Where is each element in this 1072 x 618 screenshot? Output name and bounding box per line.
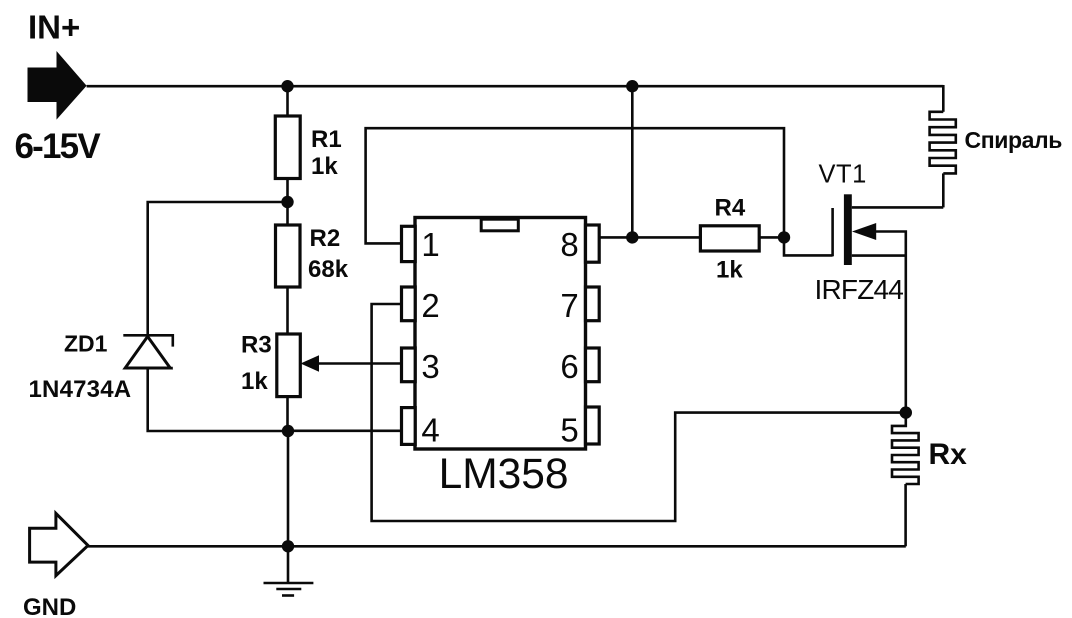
port GND arrow (30, 513, 88, 575)
transistor VT1 (833, 194, 877, 265)
pin 5 (586, 407, 600, 444)
svg-text:8: 8 (560, 226, 578, 263)
wire ground rail (88, 545, 906, 548)
svg-text:1k: 1k (716, 257, 743, 284)
svg-text:68k: 68k (308, 256, 349, 283)
wire node to pin 4 (288, 429, 402, 432)
wire body arrow to source drop (876, 232, 906, 413)
pin 7 (586, 287, 600, 321)
port IN+ arrow (28, 51, 87, 120)
zener diode ZD1 (123, 335, 173, 368)
wire R1 to node (286, 179, 289, 203)
resistor R2 (276, 225, 301, 287)
wire node to R2 (286, 202, 289, 225)
svg-text:6-15V: 6-15V (15, 127, 102, 166)
svg-text:LM358: LM358 (439, 451, 569, 498)
resistor Rx heating element (892, 413, 919, 484)
wire pin2 loop to source node (372, 304, 906, 521)
node junction ground rail (282, 540, 294, 552)
svg-text:Спираль: Спираль (965, 127, 1063, 153)
wire pin8 to R4 (599, 236, 700, 239)
svg-text:7: 7 (560, 287, 578, 324)
node junction R1/R2 (281, 196, 293, 208)
svg-text:1: 1 (421, 226, 439, 263)
svg-text:R2: R2 (310, 225, 341, 252)
svg-text:Rx: Rx (929, 438, 968, 471)
wire node to zener (148, 202, 288, 335)
resistor R1 (275, 116, 300, 179)
node junction top (281, 80, 293, 92)
wire zener to bottom node (148, 368, 288, 431)
resistor R4 (700, 226, 759, 251)
svg-text:ZD1: ZD1 (64, 331, 108, 357)
svg-text:GND: GND (23, 594, 76, 618)
node junction pin8 rail (626, 231, 638, 243)
node junction bottom divider (282, 425, 294, 437)
pin 3 (402, 348, 416, 382)
potentiometer R3 (277, 334, 319, 397)
wire pin3 to R3 wiper (319, 362, 402, 365)
pin 2 (402, 287, 416, 321)
wire vcc drop to pin8 rail (631, 86, 634, 237)
op-amp U1 LM358 body (415, 218, 586, 450)
svg-text:R4: R4 (715, 195, 746, 222)
svg-text:R3: R3 (241, 332, 272, 359)
svg-text:IRFZ44: IRFZ44 (815, 274, 904, 305)
node junction top rail / vcc drop (626, 80, 638, 92)
svg-text:1N4734A: 1N4734A (29, 376, 132, 403)
op-amp notch mark (481, 219, 518, 231)
svg-text:VT1: VT1 (819, 161, 867, 189)
wire coil to drain (942, 173, 945, 207)
pin 6 (586, 348, 600, 382)
svg-text:R1: R1 (311, 126, 342, 153)
svg-text:2: 2 (421, 287, 439, 324)
wire Rx to ground rail (904, 484, 907, 546)
wire R4 to gate node (759, 236, 784, 239)
wire source (852, 254, 906, 257)
wire to R1 (286, 86, 289, 116)
heating element Спираль (930, 112, 956, 174)
svg-text:6: 6 (560, 348, 578, 385)
svg-text:1k: 1k (241, 368, 268, 395)
svg-text:3: 3 (421, 348, 439, 385)
svg-text:1k: 1k (311, 153, 338, 180)
svg-text:4: 4 (421, 412, 439, 449)
pin 8 (586, 225, 600, 262)
wire pin1 feedback loop to gate node (366, 128, 833, 255)
wire R2 to R3 (286, 287, 289, 334)
wire top rail (87, 85, 944, 88)
pin 1 (402, 226, 416, 261)
wire coil feed (942, 85, 945, 112)
svg-text:IN+: IN+ (28, 9, 80, 46)
wire node to ground rail (287, 431, 290, 546)
wire R3 to bottom node (286, 397, 289, 431)
svg-text:5: 5 (560, 412, 578, 449)
ground symbol (264, 546, 314, 595)
node junction gate (778, 231, 790, 243)
wire drain to coil (852, 206, 944, 209)
node junction source / Rx (900, 406, 912, 418)
pin 4 (402, 408, 416, 445)
